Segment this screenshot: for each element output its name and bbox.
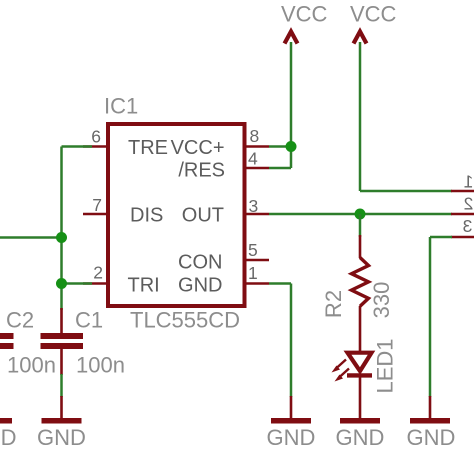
wire VCC2 to connector pin 1 xyxy=(360,190,452,193)
pin 1 stub xyxy=(246,282,270,285)
svg-text:1: 1 xyxy=(464,172,474,192)
svg-text:100n: 100n xyxy=(7,353,56,378)
svg-text:TLC555CD: TLC555CD xyxy=(130,308,240,333)
ground right column xyxy=(429,396,432,419)
svg-text:5: 5 xyxy=(248,240,258,260)
svg-text:2: 2 xyxy=(464,194,474,214)
svg-text:GND: GND xyxy=(178,275,222,297)
svg-text:DIS: DIS xyxy=(130,205,163,227)
svg-text:GND: GND xyxy=(0,425,16,450)
svg-text:100n: 100n xyxy=(76,353,125,378)
capacitor C2 plate bottom (cut at edge) xyxy=(0,343,14,349)
svg-text:1: 1 xyxy=(248,263,258,283)
capacitor C1 bottom lead xyxy=(60,348,63,375)
power VCC symbol 1 xyxy=(285,32,298,44)
LED1 emission arrow 1 xyxy=(336,360,346,369)
svg-text:330: 330 xyxy=(369,282,394,319)
LED1 cathode lead to ground xyxy=(359,377,362,419)
wire VCC2 stem xyxy=(359,42,362,191)
svg-text:3: 3 xyxy=(463,216,473,236)
svg-text:IC1: IC1 xyxy=(104,94,138,119)
svg-text:2: 2 xyxy=(93,263,103,283)
svg-text:R2: R2 xyxy=(321,290,346,318)
node junction D xyxy=(355,209,366,220)
wire connector pin 3 to ground column xyxy=(430,236,452,239)
connector pin 1 stub xyxy=(451,190,474,193)
wire OUT net xyxy=(269,213,452,216)
svg-text:TRE: TRE xyxy=(128,137,168,159)
pin 8 stub xyxy=(246,145,270,148)
wire VCC1 stem xyxy=(290,42,293,168)
capacitor C1 plate bottom xyxy=(41,343,84,349)
wire pin1 down to ground xyxy=(290,284,293,398)
LED LED1 xyxy=(348,353,372,371)
svg-text:OUT: OUT xyxy=(182,205,224,227)
wire to pin 6 xyxy=(62,145,93,148)
svg-text:6: 6 xyxy=(91,127,101,147)
pin 3 stub xyxy=(246,213,270,216)
wire vertical left column xyxy=(60,147,63,311)
svg-text:C2: C2 xyxy=(6,308,34,333)
pin 2 stub xyxy=(83,282,107,285)
wire pin 4 to VCC column xyxy=(269,167,291,170)
ground under LED1 xyxy=(340,418,380,424)
wire OUT down to R2 xyxy=(359,214,362,237)
ground for pin 1 xyxy=(290,396,293,419)
wire THR feedback from left edge xyxy=(0,236,62,239)
svg-text:GND: GND xyxy=(407,425,456,450)
svg-text:C1: C1 xyxy=(75,308,103,333)
pin 4 stub xyxy=(246,167,270,170)
svg-text:7: 7 xyxy=(92,195,102,215)
wire pin 8 to VCC column xyxy=(269,145,291,148)
svg-text:TRI: TRI xyxy=(128,275,160,297)
svg-text:4: 4 xyxy=(248,149,258,169)
wire pin 1 (GND) xyxy=(269,282,291,285)
ground under C1 xyxy=(60,396,63,419)
pin 5 stub xyxy=(246,259,270,262)
resistor R2 xyxy=(359,235,362,258)
connector pin 2 stub xyxy=(451,213,474,216)
pin 7 stub xyxy=(83,213,107,216)
wire C1 to ground xyxy=(60,374,63,397)
node junction B xyxy=(56,278,67,289)
svg-text:VCC: VCC xyxy=(281,2,328,27)
node junction C xyxy=(286,141,297,152)
svg-text:CON: CON xyxy=(178,252,222,274)
LED1 emission arrow 2 xyxy=(339,369,349,378)
wire ground column right xyxy=(429,237,432,397)
pin 6 stub xyxy=(83,145,107,148)
power VCC symbol 2 xyxy=(354,32,367,44)
svg-text:/RES: /RES xyxy=(178,160,225,182)
svg-text:VCC: VCC xyxy=(350,2,397,27)
connector pin 3 stub xyxy=(451,236,474,239)
svg-text:GND: GND xyxy=(336,425,385,450)
capacitor C1 plate top xyxy=(41,333,84,339)
svg-text:8: 8 xyxy=(250,126,260,146)
ground under C2 (cut at edge) xyxy=(0,418,12,424)
op-amp U1 (555 timer IC1 body) xyxy=(108,124,245,306)
capacitor C2 plate top (cut at edge) xyxy=(0,333,14,339)
wire to pin 2 xyxy=(62,282,93,285)
svg-text:3: 3 xyxy=(249,196,259,216)
capacitor C1 top lead xyxy=(60,308,63,334)
svg-text:LED1: LED1 xyxy=(373,338,398,393)
svg-text:GND: GND xyxy=(37,425,86,450)
svg-text:GND: GND xyxy=(267,425,316,450)
node junction A xyxy=(56,232,67,243)
svg-text:VCC+: VCC+ xyxy=(171,137,225,159)
